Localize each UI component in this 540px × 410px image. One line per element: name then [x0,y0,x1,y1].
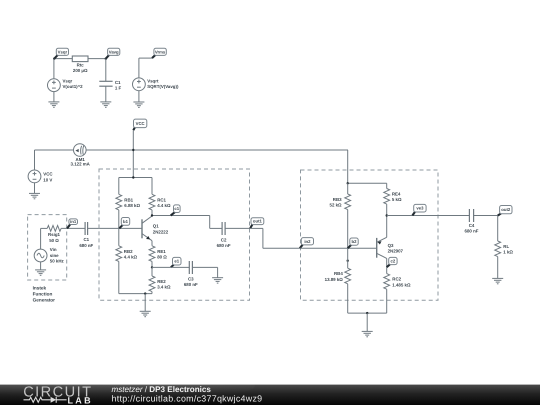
svg-text:RB4: RB4 [334,271,343,276]
svg-text:3.4 kΩ: 3.4 kΩ [157,285,171,290]
wire to Vsqr source top [53,59,55,79]
svg-text:1.485 kΩ: 1.485 kΩ [392,282,411,287]
svg-text:2N2222: 2N2222 [153,229,169,234]
wire VCC drop into stage2 [347,150,349,183]
svg-text:Vsqrt: Vsqrt [147,78,159,83]
ground under RL [492,278,503,283]
svg-text:c1: c1 [174,206,179,211]
ground under Vin [35,270,46,275]
ground under Vsqr source [48,102,59,107]
svg-text:200 µΩ: 200 µΩ [73,68,88,73]
svg-text:52 kΩ: 52 kΩ [330,203,343,208]
wire C2 to out1 [225,227,250,229]
svg-text:Q3: Q3 [388,243,394,248]
resistor RB3 52k [345,183,351,248]
svg-text:6.88 kΩ: 6.88 kΩ [124,203,140,208]
resistor Rsig1 (horizontal) [41,226,62,232]
junction stage2 top [347,182,349,184]
svg-text:sine: sine [50,253,59,258]
wire to in2 [263,247,300,249]
junction RC1-collector [151,214,153,216]
wire c1 node right [152,215,210,217]
svg-text:RB2: RB2 [124,249,133,254]
svg-text:1 F: 1 F [115,86,122,91]
flag c1 [171,205,180,216]
source Vin sine [34,249,47,262]
svg-text:C1: C1 [83,237,89,242]
resistor RE1 80ohm [149,246,155,268]
svg-text:Vrms: Vrms [155,49,166,54]
wire c1 down [209,216,211,229]
svg-text:Vsqr: Vsqr [58,49,68,54]
svg-text:C3: C3 [188,276,194,281]
wire to Vin top [40,228,42,249]
svg-text:C1: C1 [115,80,121,85]
capacitor C2 680nF [222,222,225,235]
svg-text:Rtc: Rtc [77,63,85,68]
resistor RE4 5k [384,183,390,215]
svg-text:RE1: RE1 [157,249,166,254]
logo squiggle resistor-diode [24,397,67,403]
svg-text:RC1: RC1 [157,197,166,202]
svg-text:RE4: RE4 [392,192,401,197]
flag in2 [300,238,314,249]
wire to stage1 ground [144,294,146,312]
wire in2 to Q3 base [300,247,377,249]
capacitor C1 680nF (input coupling) [85,222,88,235]
node Vsqr junction [53,58,55,60]
wire Vavg to C1top [105,59,107,82]
wire Rtc to Vavg node [88,58,106,60]
wire C1 to ground [105,86,107,102]
flag out2 [498,206,512,216]
wire stage2 bottom rail [348,312,387,314]
transistor Q3 2N2907 (PNP) [377,237,404,258]
flag b1 [119,218,129,229]
svg-text:Q1: Q1 [153,224,159,229]
svg-text:680 nF: 680 nF [217,243,231,248]
svg-text:10 V: 10 V [43,177,52,182]
ground under VCC source [29,193,40,198]
wire Vrms node [139,57,152,59]
capacitor C1 1F [99,81,112,86]
svg-text:Rsig1: Rsig1 [48,232,61,237]
flag Vsqr [54,48,68,59]
svg-text:LAB: LAB [68,395,93,405]
svg-text:680 nF: 680 nF [79,243,93,248]
flag c2 [387,257,397,267]
wire to Vsqrt top [138,58,140,78]
svg-text:Function: Function [33,292,53,297]
wire Vsqr source to ground [53,92,55,102]
resistor RL 1k [495,241,501,278]
svg-text:in2: in2 [304,239,311,244]
svg-text:13.89 kΩ: 13.89 kΩ [325,277,344,282]
svg-text:b2: b2 [352,239,358,244]
wire Rsig1 to C1cap [61,227,85,229]
resistor RC2 1.485k [384,274,390,314]
svg-text:C2: C2 [221,238,227,243]
wire emitter to RE1 [151,241,153,246]
wire C3 to ground [192,266,217,268]
ground under Vsqrt [133,102,144,107]
svg-text:RL: RL [503,244,509,249]
wire Vsqrt to ground [138,91,140,102]
dashed box Instek Function Generator [28,215,67,280]
svg-text:out2: out2 [501,207,511,212]
svg-text:RB3: RB3 [333,197,342,202]
svg-text:2N2907: 2N2907 [388,249,404,254]
ammeter AM1 [74,144,87,157]
svg-text:RE2: RE2 [157,279,166,284]
capacitor C3 680nF (emitter bypass) [189,261,192,274]
resistor RE2 3.4k [149,267,155,293]
wire to C2 [210,227,222,229]
dashed box amplifier stage 1 [99,169,250,300]
ground for C3 [212,278,223,283]
flag e1 [171,257,181,267]
wire stage1 top rail [119,177,152,179]
resistor Rtc (box style) [72,56,88,62]
wire C4 to out2 [474,215,498,217]
wire VCC flag down into stage1 [132,130,134,177]
junction VCC rail stage1 [132,176,134,178]
wire Vsqr-node to Rtc [54,58,72,60]
flag in1 [67,219,77,229]
flag ve3 [412,204,426,215]
svg-text:V(out1)^2: V(out1)^2 [63,84,84,89]
ground stage1 [140,311,151,316]
wire VCC source to ground [34,183,36,193]
svg-text:50 kHz: 50 kHz [50,258,65,263]
flag Vavg [106,48,120,59]
ground under C1 [100,102,111,107]
wire AM1 to stage2 drop [86,149,348,151]
wire Q3 collector down [386,258,388,273]
resistor RB2 4.4k [116,228,122,293]
flag VCC [133,119,147,130]
flag out1 [250,218,264,229]
svg-text:4.4 kΩ: 4.4 kΩ [157,203,171,208]
flag b2 [348,238,358,248]
wire VCC source to AM1 [35,149,74,151]
junction stage2 bottom [366,312,368,314]
transistor Q1 2N2222 (NPN) [142,216,169,241]
dashed box amplifier stage 2 [301,170,439,300]
svg-text:http://circuitlab.com/c377qkwj: http://circuitlab.com/c377qkwjc4wz9 [112,393,263,403]
source Vsqrt SQRT(V(Vavg)) [133,78,146,91]
node Vavg junction [105,58,107,60]
resistor RC1 4.4k [149,178,155,216]
svg-text:Generator: Generator [33,298,56,303]
source Vsqr V(out1)^2 [48,79,61,92]
resistor RB4 13.89k [345,248,351,313]
svg-text:Vsqr: Vsqr [63,78,73,83]
wire Q3 emitter up [386,216,388,238]
svg-text:Vin: Vin [50,247,57,252]
wire ve3 to C4 [387,215,470,217]
svg-text:4.4 kΩ: 4.4 kΩ [124,255,138,260]
svg-text:b1: b1 [123,219,129,224]
svg-text:5 kΩ: 5 kΩ [392,197,402,202]
svg-text:e1: e1 [174,259,179,264]
flag Vrms [152,48,166,58]
wire stage2 top rail [348,182,387,184]
source VCC 10V [28,170,41,183]
wire out1 down [262,228,264,248]
svg-text:RB1: RB1 [124,197,133,202]
wire out1 right [250,227,263,229]
svg-text:3.122 mA: 3.122 mA [71,162,91,167]
wire stage1 bottom rail [119,293,152,295]
wire e1 to C3 [152,266,189,268]
wire Vin to ground [40,262,42,270]
svg-text:VCC: VCC [43,172,53,177]
svg-text:VCC: VCC [136,121,145,126]
junction e1 [151,266,153,268]
junction bottom rail [144,292,146,294]
ground stage2 [362,331,373,336]
svg-text:Vavg: Vavg [109,49,119,54]
svg-text:1 kΩ: 1 kΩ [503,250,513,255]
wire down to ground [217,267,219,277]
wire rail to VCC source [34,150,36,170]
svg-text:80 Ω: 80 Ω [157,255,167,260]
svg-text:50 Ω: 50 Ω [49,238,59,243]
svg-text:ve3: ve3 [416,206,424,211]
svg-text:C4: C4 [469,223,475,228]
junction VCC rail x flag line [132,149,134,151]
wire to stage2 ground [366,313,368,331]
svg-text:RC2: RC2 [392,277,401,282]
resistor RB1 6.88k [116,178,122,229]
svg-text:out1: out1 [253,219,263,224]
svg-text:SQRT(V(Vavg)): SQRT(V(Vavg)) [147,84,179,89]
svg-text:Instek: Instek [33,286,47,291]
junction b2-RB4 [347,260,349,262]
capacitor C4 680nF [469,209,473,222]
svg-text:680 nF: 680 nF [184,282,198,287]
svg-text:680 nF: 680 nF [465,229,479,234]
junction RE4-emitter-ve3 [386,214,388,216]
wire out2 down to RL [497,216,499,241]
svg-text:c2: c2 [391,259,396,264]
wire C1cap to Q1 base [88,227,142,229]
svg-text:in1: in1 [70,219,77,224]
